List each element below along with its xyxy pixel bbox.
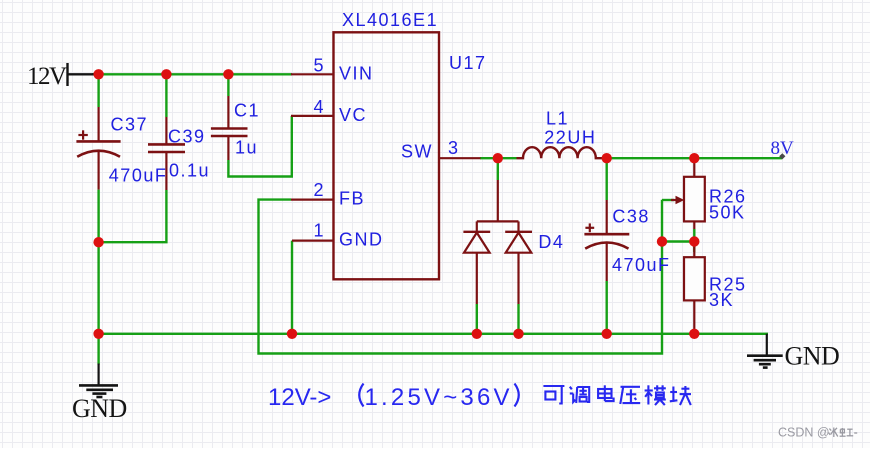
svg-text:GND: GND <box>785 342 840 371</box>
wire ground bottom rail <box>99 334 767 335</box>
ground symbol right <box>747 334 783 368</box>
junction rail IC gnd <box>287 329 297 339</box>
svg-text:12V: 12V <box>27 63 67 90</box>
wire ground rail to GND symbol <box>97 334 99 365</box>
svg-text:1u: 1u <box>235 138 258 158</box>
caption fullwidth open paren <box>359 384 363 407</box>
label R26 value 50K <box>709 203 746 223</box>
label GND right <box>785 342 840 371</box>
watermark CSDN binghong <box>778 426 857 440</box>
wire R26 wiper tail <box>662 199 674 201</box>
wire D4 right bottom lead <box>517 304 519 334</box>
junction divider tap right <box>689 236 699 246</box>
caption hanzi kuai <box>670 386 691 405</box>
label C37 value 470uF <box>109 165 168 185</box>
svg-text:470uF: 470uF <box>109 165 168 185</box>
wire C38 top lead <box>606 158 608 200</box>
label U17 <box>449 53 487 73</box>
junction top rail C39 <box>161 69 171 79</box>
svg-text:3: 3 <box>448 138 460 158</box>
junction divider tap left <box>657 236 667 246</box>
wire SW pin3 to L1 <box>480 157 517 159</box>
pin name FB <box>339 189 365 209</box>
svg-text:2: 2 <box>313 180 325 200</box>
junction top rail C1 <box>223 69 233 79</box>
diode D4 dual symbol <box>463 180 532 304</box>
label R26 <box>709 187 747 207</box>
pin number 2 <box>313 180 325 200</box>
pin 1 GND stub <box>292 240 334 242</box>
svg-text:1: 1 <box>313 221 325 241</box>
svg-text:SW: SW <box>401 142 433 162</box>
potentiometer R26 symbol <box>671 158 705 229</box>
pin name SW <box>401 142 433 162</box>
svg-text:C1: C1 <box>234 101 260 121</box>
wire C1 bottom to VC pin <box>228 116 291 177</box>
wire D4 left bottom lead <box>476 304 478 334</box>
label C1 value 1u <box>235 138 258 158</box>
junction node A C37 C39 <box>93 237 103 247</box>
label L1 value 22UH <box>544 128 596 148</box>
svg-text:4: 4 <box>313 97 325 117</box>
svg-text:VC: VC <box>339 105 367 125</box>
junction rail R25 <box>689 329 699 339</box>
svg-text:D4: D4 <box>538 232 564 252</box>
wire C37 top lead <box>97 74 99 107</box>
junction SW D4 <box>493 153 503 163</box>
wire VIN top rail 12V to pin 5 <box>92 73 292 75</box>
junction rail D4 right <box>513 329 523 339</box>
svg-text:8V: 8V <box>771 138 795 159</box>
svg-text:C38: C38 <box>612 206 650 226</box>
junction rail C37 gnd <box>93 329 103 339</box>
svg-text:CSDN @: CSDN @ <box>778 426 830 440</box>
wire C37 bottom lead to ground rail <box>97 190 99 334</box>
capacitor C39 symbol <box>148 117 185 190</box>
svg-text:GND: GND <box>339 230 384 250</box>
svg-text:C37: C37 <box>111 115 149 135</box>
junction SW L1 C38 <box>602 153 612 163</box>
label R25 <box>709 275 747 295</box>
pin number 4 <box>313 97 325 117</box>
label C1 <box>234 101 260 121</box>
label 12V <box>27 63 67 90</box>
wire D4 top lead <box>497 158 499 180</box>
pin name VIN <box>339 64 374 84</box>
svg-text:C39: C39 <box>168 126 206 146</box>
svg-text:22UH: 22UH <box>544 128 596 148</box>
label C39 <box>168 126 206 146</box>
caption fullwidth close paren <box>515 384 519 407</box>
wire divider mid node <box>662 240 694 242</box>
wire C39 top lead <box>165 74 167 117</box>
caption hanzi ya <box>620 387 640 404</box>
pin number 1 <box>313 221 325 241</box>
label C38 <box>612 206 650 226</box>
svg-text:12V->: 12V-> <box>268 384 331 411</box>
caption hanzi ke <box>543 386 564 404</box>
capacitor C38 polarized symbol <box>584 200 629 281</box>
pin 4 VC stub <box>291 115 334 117</box>
wire C38 bottom lead <box>606 281 608 334</box>
junction top rail C37 <box>93 69 103 79</box>
pin 3 SW stub <box>439 157 481 159</box>
wire FB pin to divider tap <box>259 200 663 354</box>
pin 5 VIN stub <box>291 73 334 75</box>
junction SW R26 <box>689 153 699 163</box>
node 8V wire end marker <box>779 153 785 159</box>
svg-text:VIN: VIN <box>339 64 374 84</box>
op-amp U17 XL4016E1 body <box>334 32 440 279</box>
svg-text:XL4016E1: XL4016E1 <box>342 10 438 30</box>
label C39 value 0.1u <box>169 161 210 181</box>
label XL4016E1 <box>342 10 438 30</box>
svg-text:1.25V~36V: 1.25V~36V <box>365 384 513 411</box>
junction rail D4 left <box>472 329 482 339</box>
port 12V marker <box>67 63 94 86</box>
svg-text:L1: L1 <box>546 109 569 129</box>
label L1 <box>546 109 569 129</box>
svg-text:3K: 3K <box>709 290 734 310</box>
junction rail C38 <box>602 329 612 339</box>
wire L1 to 8V arrow <box>607 157 782 159</box>
caption hanzi diao <box>570 387 589 403</box>
label 8V <box>771 138 795 159</box>
wire GND pin 1 down to rail <box>291 241 293 334</box>
pin name GND <box>339 230 384 250</box>
svg-text:U17: U17 <box>449 53 487 73</box>
pin number 5 <box>313 55 325 75</box>
pin 2 FB stub <box>291 199 334 201</box>
pin name VC <box>339 105 367 125</box>
caption latin 1.25V~36V <box>365 384 513 411</box>
wire R26 bottom to mid node <box>693 229 695 252</box>
svg-text:50K: 50K <box>709 203 746 223</box>
capacitor C37 polarized symbol <box>76 107 120 190</box>
caption hanzi dian <box>598 385 614 401</box>
label GND left <box>72 394 127 423</box>
label R25 value 3K <box>709 290 734 310</box>
wire C1 top lead <box>227 74 229 96</box>
label C38 value 470uF <box>612 255 671 275</box>
svg-text:5: 5 <box>313 55 325 75</box>
caption hanzi mo <box>645 385 666 405</box>
svg-text:GND: GND <box>72 394 127 423</box>
pin number 3 <box>448 138 460 158</box>
svg-text:470uF: 470uF <box>612 255 671 275</box>
capacitor C1 symbol <box>211 96 248 160</box>
inductor L1 symbol <box>517 147 607 158</box>
wire C39 bottom to node A <box>99 190 167 242</box>
label C37 <box>111 115 149 135</box>
resistor R25 symbol <box>684 242 705 332</box>
label D4 <box>538 232 564 252</box>
caption latin 12V-> <box>268 384 331 411</box>
svg-text:0.1u: 0.1u <box>169 161 210 181</box>
svg-text:FB: FB <box>339 189 365 209</box>
ground symbol left <box>79 364 118 398</box>
